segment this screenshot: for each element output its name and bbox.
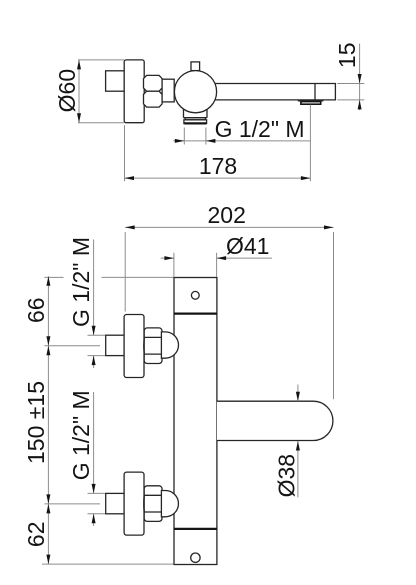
shower outlet stack (side view) (184, 108, 208, 124)
svg-text:202: 202 (208, 202, 246, 228)
centerline of aerator / 178 extension (309, 105, 311, 182)
lower inlet pipe (front view) (106, 493, 124, 513)
svg-text:15: 15 (334, 43, 360, 69)
svg-text:62: 62 (23, 522, 49, 548)
dim G 1/2" M upper extension lines (88, 335, 106, 355)
svg-text:Ø60: Ø60 (54, 69, 80, 112)
left extension line at body bottom (42, 563, 174, 565)
top plate divider (174, 313, 217, 315)
spout (side view) (208, 84, 335, 100)
thermostat knob button (191, 62, 200, 71)
lower hex nut (front view) (144, 486, 163, 522)
lower check-valve dome (161, 491, 178, 517)
hex nut (side view) (144, 75, 163, 107)
thermostat knob (circle) (174, 71, 216, 113)
upper inlet pipe (front view) (106, 335, 124, 355)
svg-text:150 ±15: 150 ±15 (23, 381, 49, 464)
dim G 1/2" M (top view) extension lines (184, 128, 206, 145)
dim 202 extension lines (125, 232, 333, 399)
wall supply pipe (side view) (106, 71, 125, 91)
svg-text:G 1/2" M: G 1/2" M (68, 390, 94, 480)
lower wall escutcheon (front view) (124, 472, 144, 535)
svg-text:Ø41: Ø41 (226, 233, 269, 259)
dim Ø60 line with arrows (77, 60, 81, 123)
svg-text:Ø38: Ø38 (274, 454, 300, 497)
dim Ø38 line with outside arrows (296, 385, 300, 498)
dim G 1/2" M lower line with outside arrows (92, 392, 96, 526)
dim 150 ±15 line with arrows (46, 346, 50, 504)
body column (174, 278, 217, 565)
dim 66 line with arrows (46, 276, 50, 346)
adapter sleeve (side view) (162, 79, 174, 102)
dim 178 extension line (124, 125, 126, 181)
bottom screw hole (191, 553, 200, 562)
aerator under spout tip (298, 101, 324, 104)
svg-text:178: 178 (199, 153, 237, 179)
dim Ø41 line with outside arrows (161, 256, 272, 260)
dim 15 line with outside arrows (358, 44, 362, 111)
left extension line at body top (44, 276, 173, 278)
top screw hole (191, 291, 199, 299)
dim Ø60 extension lines (78, 60, 124, 123)
dim G 1/2" M (top view) line with outside arrows (173, 139, 310, 143)
wall escutcheon (side view) (124, 60, 144, 123)
dim 15 extension lines (337, 84, 364, 100)
upper wall escutcheon (front view) (124, 315, 144, 378)
upper check-valve dome (161, 332, 178, 358)
dim G 1/2" M upper line with outside arrows (92, 240, 96, 369)
left extension line at lower pipe center (44, 503, 100, 505)
svg-text:G 1/2" M: G 1/2" M (215, 116, 305, 142)
dim G 1/2" M lower extension lines (88, 493, 106, 513)
left extension line at upper pipe center (44, 345, 100, 347)
spout (front view) (217, 401, 333, 440)
svg-text:66: 66 (23, 297, 49, 323)
dim Ø41 extension lines (174, 253, 217, 277)
bottom plate divider (174, 528, 217, 530)
svg-text:G 1/2" M: G 1/2" M (68, 237, 94, 327)
dim 178 line with arrows (125, 176, 311, 180)
upper hex nut (front view) (144, 328, 163, 364)
dim 62 line with arrows (46, 504, 50, 564)
dim 202 line with arrows (125, 225, 333, 229)
